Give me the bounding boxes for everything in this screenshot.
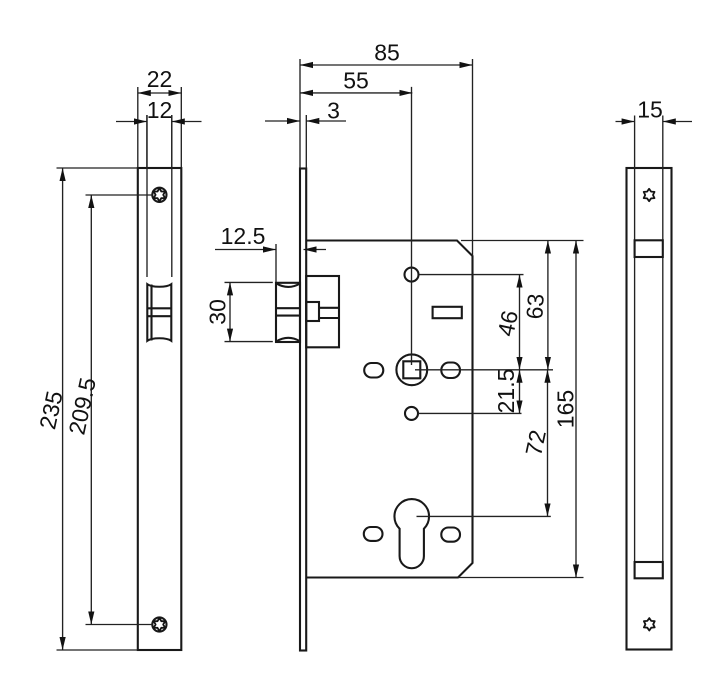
stop slot — [433, 307, 462, 318]
dim 12.5 extension — [275, 244, 277, 282]
dim 85 extension right — [472, 59, 474, 256]
dim 85 extension left — [299, 59, 301, 169]
dim 46 — [492, 275, 523, 370]
handle screw hole right — [441, 363, 460, 379]
dim 21.5 — [493, 369, 520, 414]
cylinder screw hole left — [364, 527, 383, 541]
dim 3 — [265, 98, 346, 124]
dim 30 — [205, 282, 231, 341]
dim 12 — [116, 97, 202, 123]
right case bottom end — [635, 562, 663, 578]
latch follower bump — [306, 302, 319, 321]
top fixing hole — [405, 268, 419, 282]
dim 209.5 leader bottom — [86, 624, 153, 626]
spindle follower circle — [396, 354, 427, 385]
dim 72 — [520, 370, 551, 517]
dim 12.5 — [215, 223, 326, 250]
latch guide block — [306, 276, 339, 347]
svg-text:21.5: 21.5 — [493, 369, 519, 414]
handle screw hole left — [364, 363, 383, 378]
dim 22 extension lines — [138, 87, 182, 168]
torx screw bottom-right — [644, 618, 655, 630]
spindle square hole — [403, 361, 420, 378]
dim 22 — [138, 66, 182, 93]
svg-text:85: 85 — [374, 40, 400, 66]
dim 235 witness bottom — [57, 649, 138, 651]
latch bolt side view — [276, 283, 300, 342]
cylinder screw hole right — [441, 528, 460, 542]
euro cylinder cutout — [394, 499, 429, 568]
left faceplate inner face line right — [171, 115, 173, 277]
dim 63 — [521, 241, 549, 370]
svg-text:3: 3 — [327, 98, 340, 124]
svg-text:72: 72 — [520, 428, 551, 458]
cylinder fixing hole — [405, 407, 418, 420]
svg-text:63: 63 — [521, 293, 549, 320]
torx screw bottom-left — [152, 617, 166, 631]
svg-text:30: 30 — [205, 299, 231, 325]
svg-text:22: 22 — [147, 66, 173, 92]
left faceplate outline — [138, 168, 182, 650]
svg-text:55: 55 — [343, 68, 369, 94]
centerline spindle axis — [411, 87, 413, 365]
dim 165 — [553, 241, 579, 578]
leader euro cylinder — [417, 515, 551, 517]
witness case bottom — [458, 577, 584, 579]
svg-text:15: 15 — [637, 97, 663, 123]
svg-text:165: 165 — [553, 390, 579, 428]
dim 55 — [300, 68, 412, 94]
leader top hole — [419, 274, 524, 276]
dim 15 — [616, 97, 693, 123]
leader cylinder fixing hole — [418, 412, 522, 414]
right case top end — [635, 240, 663, 257]
dim 3 extension right — [305, 115, 307, 169]
dim 235 — [34, 168, 67, 650]
right faceplate outline — [627, 168, 672, 650]
witness spindle row — [415, 369, 553, 371]
svg-text:46: 46 — [492, 308, 523, 338]
latch tail channel — [319, 308, 339, 318]
torx screw top-left — [152, 188, 166, 202]
dim 12 extension lines — [147, 115, 172, 168]
dim 85 — [300, 40, 473, 66]
torx screw top-right — [644, 189, 655, 201]
witness case top — [461, 240, 584, 242]
svg-text:12.5: 12.5 — [221, 223, 266, 249]
dim 209.5 leader top — [86, 194, 153, 196]
dim 30 witness bottom — [225, 341, 273, 343]
svg-text:12: 12 — [147, 97, 173, 123]
dim 30 witness top — [225, 281, 273, 283]
lock case outline — [306, 241, 472, 578]
right case edge line right — [662, 116, 664, 579]
dim 209.5 — [63, 195, 100, 625]
dim 235 witness top — [57, 167, 138, 169]
faceplate edge strip — [300, 169, 306, 651]
left faceplate inner face line left — [146, 115, 148, 277]
right case edge line left — [634, 116, 636, 579]
latch bolt front view — [147, 284, 171, 341]
